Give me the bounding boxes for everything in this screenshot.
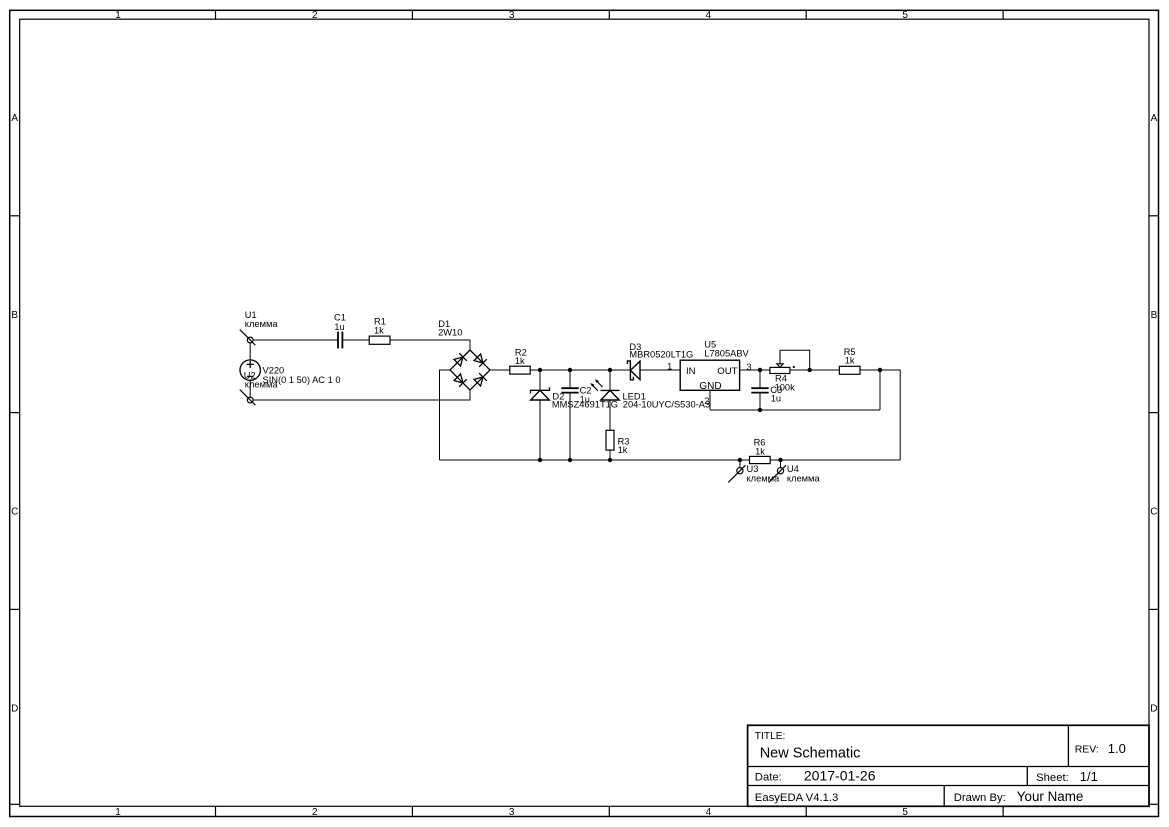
svg-text:1u: 1u xyxy=(771,394,781,404)
svg-text:204-10UYC/S530-A3: 204-10UYC/S530-A3 xyxy=(623,400,710,410)
svg-text:IN: IN xyxy=(686,366,696,377)
wire C2 top stub xyxy=(569,370,571,388)
svg-text:Date:: Date: xyxy=(755,772,782,784)
svg-text:1/1: 1/1 xyxy=(1080,769,1098,784)
zener diode D2 xyxy=(531,387,550,400)
svg-text:2: 2 xyxy=(312,10,318,21)
node junction wiper/rail xyxy=(808,368,812,372)
R4 pin1 dot marker xyxy=(793,366,795,368)
column ticks top xyxy=(216,10,1004,19)
svg-text:1.0: 1.0 xyxy=(1108,741,1126,756)
wire R4 wiper loop xyxy=(780,350,810,370)
node junction C2/ground xyxy=(568,458,572,462)
svg-text:клемма: клемма xyxy=(747,473,781,483)
wire U4 stub xyxy=(780,460,782,468)
row labels right xyxy=(1150,113,1157,714)
row ticks right xyxy=(1149,216,1159,805)
node junction R2/D2 xyxy=(538,368,542,372)
svg-text:TITLE:: TITLE: xyxy=(755,731,786,742)
column ticks bottom xyxy=(216,806,1004,816)
svg-text:3: 3 xyxy=(509,10,515,21)
svg-text:1: 1 xyxy=(667,361,672,371)
wire U1 to source xyxy=(249,343,251,360)
wire GND link horizontal xyxy=(710,409,880,411)
wire C3 bottom stub xyxy=(759,393,761,410)
svg-text:D: D xyxy=(1150,703,1157,714)
title block outer box xyxy=(748,725,1149,806)
svg-text:OUT: OUT xyxy=(717,366,737,377)
terminal U1 (клемма) xyxy=(240,330,256,346)
svg-text:Sheet:: Sheet: xyxy=(1036,772,1069,784)
node junction R6-left/U3 xyxy=(738,458,742,462)
schottky diode D3 xyxy=(627,361,640,380)
wire C3 top stub xyxy=(759,370,761,388)
row labels left xyxy=(11,113,18,714)
terminal U3 (клемма) xyxy=(728,465,745,482)
svg-text:D: D xyxy=(11,703,18,714)
node junction R5/GND-link xyxy=(878,368,882,372)
wire U2 to bridge bottom xyxy=(253,390,470,400)
resistor R1 xyxy=(369,336,390,344)
svg-text:REV:: REV: xyxy=(1075,744,1099,756)
resistor R6 xyxy=(750,456,771,463)
node junction D2/ground xyxy=(538,458,542,462)
regulator U5 L7805ABV xyxy=(680,360,739,390)
svg-text:C: C xyxy=(11,507,18,518)
capacitor C1 xyxy=(338,332,342,349)
svg-text:2: 2 xyxy=(312,807,318,818)
wire U1 to C1 xyxy=(253,339,337,341)
wire U3 stub xyxy=(739,460,741,468)
svg-text:EasyEDA V4.1.3: EasyEDA V4.1.3 xyxy=(755,792,839,804)
svg-text:MBR0520LT1G: MBR0520LT1G xyxy=(629,350,693,360)
svg-text:A: A xyxy=(11,113,18,124)
node junction rail/C2 xyxy=(568,368,572,372)
potentiometer R4 body xyxy=(770,367,790,373)
svg-text:клемма: клемма xyxy=(245,319,279,329)
svg-text:L7805ABV: L7805ABV xyxy=(704,349,749,359)
row ticks left xyxy=(10,216,20,805)
svg-text:1u: 1u xyxy=(334,322,344,332)
svg-text:A: A xyxy=(1151,113,1158,124)
wire LED1 top stub xyxy=(609,370,611,390)
node junction R6-right/U4 xyxy=(778,458,782,462)
svg-text:4: 4 xyxy=(706,10,712,21)
wire R2 to D3 (main +rail) xyxy=(530,369,630,371)
potentiometer R4 wiper xyxy=(777,350,783,367)
svg-text:1: 1 xyxy=(115,10,121,21)
svg-text:3: 3 xyxy=(509,807,515,818)
svg-text:Drawn By:: Drawn By: xyxy=(954,792,1006,804)
terminal U4 (клемма) xyxy=(769,465,786,482)
title block row divider 2 xyxy=(748,785,1149,787)
svg-text:1k: 1k xyxy=(515,356,525,366)
wire C1 to R1 xyxy=(343,339,369,341)
svg-text:клемма: клемма xyxy=(787,473,821,483)
node junction R3/ground xyxy=(608,458,612,462)
svg-text:1k: 1k xyxy=(374,326,384,336)
svg-text:5: 5 xyxy=(902,807,908,818)
terminal U2 (клемма) xyxy=(240,390,256,406)
svg-text:клемма: клемма xyxy=(245,380,279,390)
resistor R5 xyxy=(839,366,860,374)
wire bridge left to ground rail xyxy=(440,370,451,460)
wire bridge right to R2 xyxy=(490,369,510,371)
node junction C3/GND-link xyxy=(758,408,762,412)
svg-text:5: 5 xyxy=(902,10,908,21)
wire D2 top stub xyxy=(539,370,541,390)
node junction OUT/C3 xyxy=(758,368,762,372)
wire LED1 to R3 xyxy=(609,400,611,430)
svg-text:1k: 1k xyxy=(845,356,855,366)
svg-text:2W10: 2W10 xyxy=(438,328,462,338)
svg-text:B: B xyxy=(1151,310,1158,321)
LED LED1 xyxy=(601,390,620,400)
svg-text:2: 2 xyxy=(704,396,709,406)
TITLE BLOCK xyxy=(748,725,1149,806)
svg-text:4: 4 xyxy=(706,807,712,818)
svg-text:1u: 1u xyxy=(580,395,590,405)
svg-text:1k: 1k xyxy=(618,445,628,455)
capacitor C3 xyxy=(751,388,768,392)
wire R5 to right corner xyxy=(860,370,900,460)
wire R3 to ground rail xyxy=(609,450,611,460)
resistor R2 xyxy=(510,366,530,374)
title block row divider 1 xyxy=(748,766,1149,768)
svg-text:Your Name: Your Name xyxy=(1017,789,1084,804)
resistor R3 xyxy=(606,430,614,450)
title block divider DrawnBy xyxy=(943,786,945,807)
svg-text:V220: V220 xyxy=(263,366,285,376)
svg-text:2017-01-26: 2017-01-26 xyxy=(804,768,876,784)
title block divider REV xyxy=(1067,725,1069,766)
wire R4 to R5 xyxy=(790,369,839,371)
capacitor C2 xyxy=(561,388,578,392)
title block divider Sheet xyxy=(1026,767,1028,786)
wire D2 bottom stub xyxy=(539,400,541,460)
node junction rail/LED1 xyxy=(608,368,612,372)
column labels bottom xyxy=(115,807,908,818)
voltage source V220 xyxy=(240,360,260,380)
LED1 emission arrows xyxy=(590,379,602,391)
wire GND link vertical up xyxy=(879,370,881,410)
svg-text:B: B xyxy=(11,310,18,321)
wire C2 bottom stub xyxy=(569,393,571,460)
wire R1 to bridge top xyxy=(390,340,470,350)
wire source to U2 xyxy=(249,380,251,397)
svg-text:100k: 100k xyxy=(775,383,796,393)
svg-text:1: 1 xyxy=(115,807,121,818)
wire U5 OUT to R4 xyxy=(740,369,770,371)
column labels top xyxy=(115,10,908,21)
svg-text:1k: 1k xyxy=(755,447,765,457)
wire U5 GND pin down xyxy=(709,390,711,410)
wire D3 to U5 IN xyxy=(640,369,680,371)
svg-text:C: C xyxy=(1150,507,1157,518)
svg-text:New Schematic: New Schematic xyxy=(760,746,861,762)
bridge rectifier D1 xyxy=(450,350,490,390)
wire ground rail xyxy=(440,459,901,461)
